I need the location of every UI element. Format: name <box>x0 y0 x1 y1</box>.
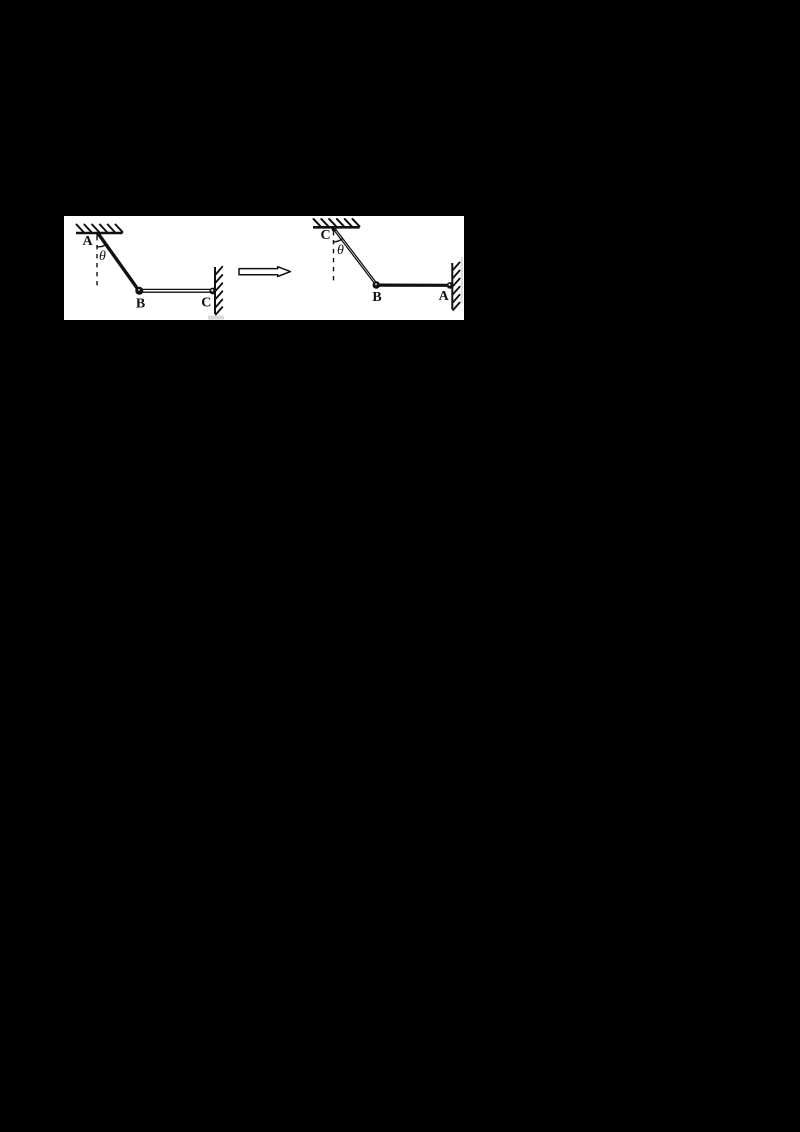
svg-text:A: A <box>439 289 450 304</box>
svg-text:C: C <box>201 296 211 311</box>
svg-text:θ: θ <box>99 249 106 264</box>
svg-text:B: B <box>136 297 145 312</box>
svg-text:B: B <box>372 290 381 305</box>
svg-text:A: A <box>82 234 93 249</box>
svg-text:θ: θ <box>337 243 344 258</box>
svg-text:C: C <box>320 228 330 243</box>
